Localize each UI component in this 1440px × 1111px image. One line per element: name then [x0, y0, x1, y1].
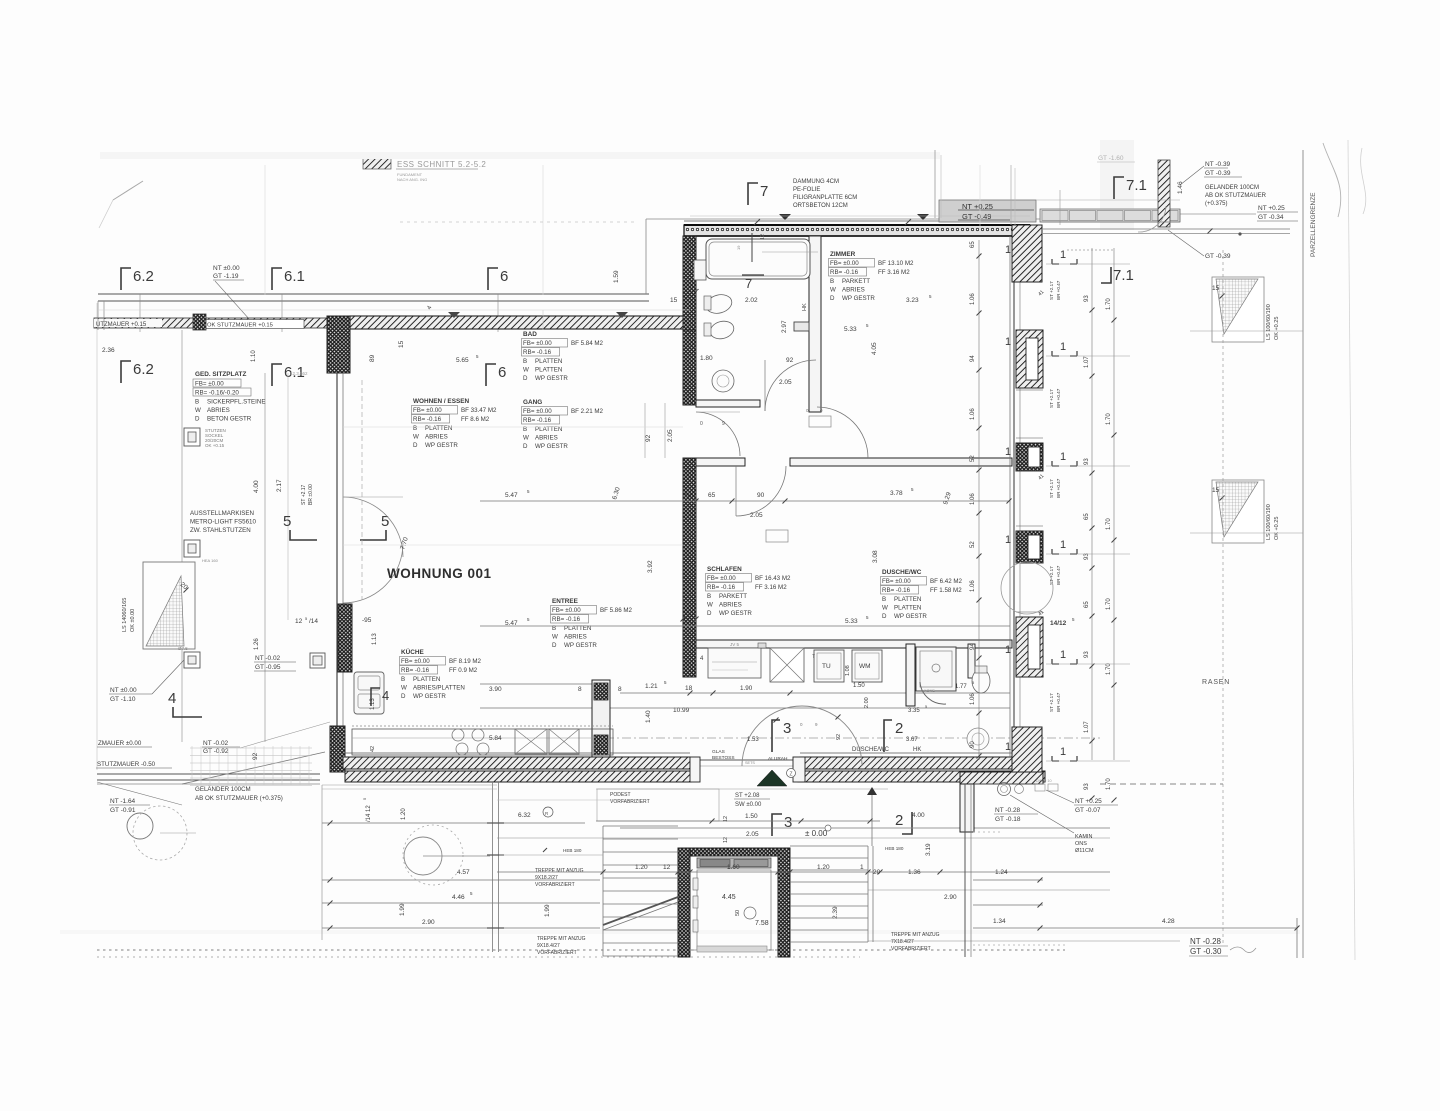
svg-text:ABRIES: ABRIES — [842, 287, 865, 294]
svg-text:/14: /14 — [309, 618, 318, 625]
stair marker triangle 1 — [1212, 277, 1264, 342]
svg-text:GT -0.07: GT -0.07 — [1075, 807, 1101, 814]
svg-text:5.65: 5.65 — [456, 357, 469, 364]
svg-text:GT -0.30: GT -0.30 — [1190, 947, 1222, 956]
svg-text:5.33: 5.33 — [844, 326, 857, 333]
svg-text:FB= ±0.00: FB= ±0.00 — [707, 575, 736, 582]
west wall stub kitchen — [338, 604, 352, 672]
svg-text:W: W — [195, 407, 201, 414]
svg-text:FB= ±0.00: FB= ±0.00 — [552, 607, 581, 614]
svg-text:NT -0.28: NT -0.28 — [995, 807, 1021, 814]
svg-text:15: 15 — [1212, 285, 1220, 292]
svg-text:94: 94 — [970, 643, 976, 650]
balcony slab gray NT+0.25 — [939, 200, 1036, 222]
svg-text:3.23: 3.23 — [906, 297, 919, 304]
small box near entree wall — [310, 653, 325, 668]
svg-text:BF 6.42 M2: BF 6.42 M2 — [930, 578, 963, 585]
left vertical line x182 — [181, 330, 183, 742]
svg-text:1.07: 1.07 — [1084, 721, 1090, 733]
svg-text:ORTSBETON 12CM: ORTSBETON 12CM — [793, 203, 848, 209]
svg-text:ONS: ONS — [1075, 841, 1087, 847]
svg-text:ABRIES: ABRIES — [535, 435, 558, 442]
svg-text:Ø11CM: Ø11CM — [1075, 848, 1094, 854]
svg-text:FF 8.6 M2: FF 8.6 M2 — [461, 416, 490, 423]
svg-text:4.00: 4.00 — [912, 812, 925, 819]
balcony slab tiles — [1040, 209, 1180, 222]
svg-text:1.20: 1.20 — [401, 808, 407, 820]
svg-text:6.2: 6.2 — [133, 361, 154, 378]
svg-text:PARKETT: PARKETT — [719, 593, 747, 600]
svg-text:OK ±0.00: OK ±0.00 — [130, 609, 136, 632]
svg-text:WP GESTR: WP GESTR — [564, 642, 597, 649]
wc toilet right — [972, 669, 990, 693]
svg-text:1.06: 1.06 — [970, 493, 976, 505]
svg-text:PE-FOLIE: PE-FOLIE — [793, 187, 820, 193]
svg-text:2.05: 2.05 — [746, 831, 759, 838]
svg-text:1: 1 — [1060, 451, 1066, 463]
svg-text:UTZMAUER +0.15: UTZMAUER +0.15 — [96, 322, 147, 328]
svg-text:1: 1 — [1005, 244, 1011, 256]
svg-text:1: 1 — [1060, 539, 1066, 551]
svg-text:FB= ±0.00: FB= ±0.00 — [523, 408, 552, 415]
svg-text:PLATTEN: PLATTEN — [894, 605, 921, 612]
SW corner wall — [330, 726, 345, 772]
svg-text:PLATTEN: PLATTEN — [413, 676, 440, 683]
horizontal long lines at stair level — [499, 854, 603, 856]
svg-text:GT -0.92: GT -0.92 — [203, 748, 229, 755]
north wall east part: insulation dotted band y226-236 x684-1030 — [684, 225, 1030, 236]
faint diagonal top-left — [113, 181, 143, 200]
svg-text:BF 13.10 M2: BF 13.10 M2 — [878, 260, 914, 267]
faint left border line — [96, 303, 98, 770]
svg-text:3.90: 3.90 — [489, 686, 502, 693]
svg-text:12: 12 — [366, 805, 372, 812]
north wall west part: hatched band y316-329 x327-690 — [350, 316, 690, 329]
svg-text:LS 14060/165: LS 14060/165 — [122, 598, 128, 632]
svg-text:RB= -0.16: RB= -0.16 — [413, 416, 442, 423]
canopy outer thin line top — [646, 218, 1180, 220]
svg-text:(+0.375): (+0.375) — [1205, 201, 1228, 207]
svg-text:2: 2 — [895, 812, 903, 829]
svg-text:AB OK STUTZMAUER: AB OK STUTZMAUER — [1205, 193, 1267, 199]
svg-text:2.90: 2.90 — [422, 919, 435, 926]
svg-text:ABRIES/PLATTEN: ABRIES/PLATTEN — [413, 685, 465, 692]
circle manhole — [127, 813, 153, 839]
svg-text:FB= ±0.00: FB= ±0.00 — [882, 578, 911, 585]
svg-text:GT -0.95: GT -0.95 — [255, 664, 281, 671]
schlafen niche small box — [758, 643, 766, 648]
stair dim line y872 — [497, 871, 1110, 873]
svg-text:5: 5 — [381, 513, 389, 530]
svg-text:1.10: 1.10 — [251, 350, 257, 362]
svg-text:NT -0.39: NT -0.39 — [1205, 161, 1231, 168]
svg-text:3.08: 3.08 — [872, 550, 879, 563]
svg-text:1.70: 1.70 — [1106, 598, 1112, 610]
svg-text:NT -0.02: NT -0.02 — [203, 740, 229, 747]
svg-text:KÜCHE: KÜCHE — [401, 647, 424, 656]
wall WM/shower — [906, 644, 915, 706]
svg-text:1.46: 1.46 — [1177, 181, 1184, 194]
svg-text:ZW. STAHLSTUTZEN: ZW. STAHLSTUTZEN — [190, 527, 251, 534]
svg-text:1.59: 1.59 — [613, 270, 620, 283]
svg-text:15: 15 — [670, 297, 678, 304]
svg-text:92: 92 — [645, 434, 652, 442]
svg-text:52: 52 — [970, 455, 976, 462]
svg-text:6: 6 — [498, 364, 506, 381]
bath south wall y400-407 — [696, 400, 760, 407]
entree/schlafen wall x683-696 y458-677 — [683, 458, 696, 677]
svg-text:6: 6 — [500, 268, 508, 285]
dim lines around entrance — [596, 820, 880, 822]
svg-text:1.06: 1.06 — [970, 408, 976, 420]
svg-text:65: 65 — [1084, 601, 1090, 608]
svg-text:BR +0.47: BR +0.47 — [1056, 565, 1061, 585]
svg-text:NT -1.64: NT -1.64 — [110, 798, 136, 805]
svg-text:2.05: 2.05 — [750, 512, 763, 519]
svg-text:PLATTEN: PLATTEN — [535, 367, 562, 374]
svg-text:WP GESTR: WP GESTR — [425, 442, 458, 449]
svg-text:FB= ±0.00: FB= ±0.00 — [401, 658, 430, 665]
svg-text:2.00: 2.00 — [864, 697, 870, 708]
chain x1092 93/65 — [1091, 248, 1093, 760]
stair core left wall — [678, 848, 690, 957]
svg-text:STUTZMAUER -0.50: STUTZMAUER -0.50 — [97, 761, 156, 768]
svg-text:93: 93 — [1084, 295, 1090, 302]
svg-text:FB= ±0.00: FB= ±0.00 — [523, 340, 552, 347]
svg-text:GELÄNDER 100CM: GELÄNDER 100CM — [195, 786, 251, 793]
svg-text:W: W — [552, 634, 558, 641]
svg-text:OK +0.15: OK +0.15 — [205, 443, 225, 448]
svg-text:RASEN: RASEN — [1202, 679, 1230, 686]
stair marker triangle 2 — [1212, 480, 1264, 543]
dim line y626 — [480, 625, 1010, 627]
mid stutzen box — [184, 540, 200, 557]
svg-text:FB= ±0.00: FB= ±0.00 — [830, 260, 859, 267]
grid small area below sitzplatz — [190, 747, 312, 749]
bath west wall (vert hatched) x683-696 y236-330 — [683, 236, 696, 330]
long faint horizontals upper area — [98, 309, 690, 311]
svg-text:FF 1.58 M2: FF 1.58 M2 — [930, 587, 962, 594]
svg-text:RB= -0.16: RB= -0.16 — [552, 616, 581, 623]
svg-text:3: 3 — [783, 720, 791, 737]
schlafen door arc — [736, 466, 786, 516]
svg-text:52: 52 — [970, 541, 976, 548]
svg-text:B: B — [413, 425, 417, 432]
svg-text:SW ±0.00: SW ±0.00 — [735, 802, 762, 808]
svg-text:9: 9 — [722, 421, 725, 427]
svg-text:1.60: 1.60 — [727, 864, 740, 871]
svg-text:12: 12 — [760, 234, 766, 240]
svg-text:PODEST: PODEST — [610, 792, 631, 798]
svg-text:93: 93 — [1084, 458, 1090, 465]
window sill small marks on facade — [1016, 389, 1043, 391]
svg-text:1.70: 1.70 — [1106, 298, 1112, 310]
svg-text:HK: HK — [913, 747, 921, 753]
svg-text:1.21: 1.21 — [645, 683, 658, 690]
svg-text:B: B — [401, 676, 405, 683]
svg-text:1: 1 — [1005, 741, 1011, 753]
east facade inner line — [1009, 236, 1011, 757]
small wall stamp near OK STUTZMAUER — [193, 314, 206, 330]
svg-text:Z: Z — [789, 772, 792, 778]
svg-text:ST +2.17: ST +2.17 — [1049, 389, 1054, 408]
dim line y501 — [480, 500, 1010, 502]
svg-text:3.19: 3.19 — [925, 843, 932, 856]
svg-text:GELANDER 100CM: GELANDER 100CM — [1205, 185, 1259, 191]
svg-text:1.99: 1.99 — [544, 904, 551, 917]
chain x1114 1.70 — [1113, 248, 1115, 760]
wash basin circle bottom — [967, 728, 989, 750]
squiggle — [1230, 947, 1256, 953]
svg-text:-95: -95 — [362, 617, 372, 624]
south wall inner line — [343, 752, 690, 754]
svg-text:5.84: 5.84 — [489, 735, 502, 742]
svg-text:7.1: 7.1 — [1126, 177, 1147, 194]
svg-text:BR +0.47: BR +0.47 — [1056, 692, 1061, 712]
left-of-facade chain x979 — [978, 240, 980, 760]
NW corner wall — [327, 316, 350, 373]
svg-text:7X18.4/27: 7X18.4/27 — [891, 939, 914, 945]
svg-text:KAMIN: KAMIN — [1075, 834, 1092, 840]
svg-text:1.77: 1.77 — [955, 684, 967, 690]
svg-text:DW Ø 10: DW Ø 10 — [1036, 779, 1052, 783]
svg-text:1.70: 1.70 — [1106, 663, 1112, 675]
svg-text:12.3.662: 12.3.662 — [290, 371, 308, 376]
svg-text:1: 1 — [1005, 446, 1011, 458]
svg-text:1.06: 1.06 — [970, 580, 976, 592]
facade pillar B1 — [1016, 330, 1043, 388]
svg-text:AUSSTELLMARKISEN: AUSSTELLMARKISEN — [190, 510, 254, 517]
svg-text:5.33: 5.33 — [845, 618, 858, 625]
left stair flight — [603, 825, 678, 827]
svg-text:7: 7 — [745, 276, 752, 291]
svg-text:SICKERPFL.STEINE: SICKERPFL.STEINE — [207, 399, 265, 406]
sink boxes — [515, 729, 547, 754]
svg-text:3: 3 — [784, 814, 792, 831]
stutzen sockel box — [184, 428, 200, 446]
svg-text:B: B — [195, 399, 199, 406]
svg-text:FF 0.9 M2: FF 0.9 M2 — [449, 667, 478, 674]
schlafen north wall y458-466 — [696, 458, 745, 466]
south wall west segment y757-782 — [343, 757, 690, 769]
svg-text:2.05: 2.05 — [779, 379, 792, 386]
svg-text:2.39: 2.39 — [832, 906, 839, 919]
facade pillar B4 — [1016, 617, 1043, 677]
light scan streaks — [100, 152, 940, 159]
svg-text:GT -0.91: GT -0.91 — [110, 807, 136, 814]
svg-text:ST +2.17: ST +2.17 — [1049, 693, 1054, 712]
svg-text:FF 3.16 M2: FF 3.16 M2 — [878, 269, 910, 276]
svg-text:93: 93 — [1084, 651, 1090, 658]
svg-text:W: W — [830, 287, 836, 294]
svg-text:WOHNUNG 001: WOHNUNG 001 — [387, 566, 492, 581]
svg-text:D: D — [552, 642, 557, 649]
svg-text:RB= -0.16: RB= -0.16 — [523, 417, 552, 424]
svg-text:1.50: 1.50 — [745, 813, 758, 820]
svg-text:ST +2.17: ST +2.17 — [1049, 281, 1054, 300]
svg-text:1.20: 1.20 — [817, 864, 830, 871]
west glass facade double line — [336, 373, 338, 757]
svg-text:PLATTEN: PLATTEN — [425, 425, 452, 432]
title stamp — [363, 158, 391, 169]
svg-text:15: 15 — [398, 340, 405, 348]
svg-text:3.78: 3.78 — [890, 490, 903, 497]
svg-text:ZMAUER ±0.00: ZMAUER ±0.00 — [98, 740, 142, 747]
svg-text:ST +2.17: ST +2.17 — [301, 484, 307, 505]
svg-text:ENTREE: ENTREE — [552, 598, 579, 605]
slanted dim lines left of stair — [322, 822, 585, 824]
svg-text:4.45: 4.45 — [722, 894, 736, 901]
svg-text:W: W — [413, 434, 419, 441]
svg-text:OK +0.25: OK +0.25 — [1274, 317, 1280, 340]
svg-text:1: 1 — [1060, 746, 1066, 758]
svg-text:2.97: 2.97 — [781, 320, 788, 333]
svg-text:FF 3.16 M2: FF 3.16 M2 — [755, 584, 787, 591]
svg-text:ABRIES: ABRIES — [425, 434, 448, 441]
entrance door swing — [742, 706, 862, 766]
svg-text:BF 8.19 M2: BF 8.19 M2 — [449, 658, 482, 665]
zimmer door arc (from gang) — [817, 407, 868, 458]
svg-text:± 0.00: ± 0.00 — [805, 829, 828, 838]
kitchen stub wall — [592, 680, 610, 757]
svg-text:BAD: BAD — [523, 331, 537, 338]
svg-text:FB= ±0.00: FB= ±0.00 — [413, 407, 442, 414]
svg-text:D: D — [882, 613, 887, 620]
svg-text:3.92: 3.92 — [647, 560, 654, 573]
mid horizontal faint y427 — [343, 426, 683, 428]
shower — [916, 647, 956, 691]
svg-text:ABRIES: ABRIES — [719, 602, 742, 609]
svg-text:3.35: 3.35 — [908, 708, 920, 714]
svg-text:VORFABRIZIERT: VORFABRIZIERT — [535, 882, 575, 888]
svg-text:ZIMMER: ZIMMER — [830, 251, 856, 258]
svg-text:ALURAH.: ALURAH. — [768, 756, 789, 762]
svg-text:ABRIES: ABRIES — [207, 407, 230, 414]
svg-text:WP GESTR: WP GESTR — [535, 375, 568, 382]
svg-text:1.90: 1.90 — [740, 685, 753, 692]
svg-text:1: 1 — [1005, 534, 1011, 546]
svg-text:1.34: 1.34 — [993, 918, 1006, 925]
svg-text:METRO-LIGHT FS5610: METRO-LIGHT FS5610 — [190, 519, 256, 526]
balcony right wall stub — [1158, 160, 1170, 227]
svg-text:12: 12 — [295, 618, 303, 625]
bath door arc — [765, 360, 816, 411]
svg-text:RB= -0.16: RB= -0.16 — [401, 667, 430, 674]
svg-text:92: 92 — [836, 734, 842, 740]
svg-text:2.17: 2.17 — [276, 479, 283, 492]
elevator door marks — [693, 878, 698, 890]
circle detail on facade — [1001, 562, 1053, 614]
dash-dot line above south wall — [605, 737, 1100, 739]
SE corner wall — [1012, 727, 1042, 772]
svg-text:HEA 160: HEA 160 — [202, 558, 219, 563]
facade pillar B3 — [1016, 531, 1043, 563]
svg-text:65: 65 — [708, 492, 716, 499]
svg-text:DAMMUNG 4CM: DAMMUNG 4CM — [793, 179, 839, 185]
svg-text:8: 8 — [618, 686, 622, 693]
toilet bad — [704, 292, 734, 316]
svg-text:D: D — [830, 295, 835, 302]
svg-text:RB= -0.16: RB= -0.16 — [882, 587, 911, 594]
svg-text:D: D — [707, 610, 712, 617]
small dashed at 945 — [973, 944, 1067, 946]
svg-text:65: 65 — [970, 241, 976, 248]
svg-text:1.70: 1.70 — [1106, 413, 1112, 425]
schlafen south wall y640-648 — [696, 640, 1012, 648]
svg-text:1.06: 1.06 — [970, 693, 976, 705]
svg-text:1.24: 1.24 — [995, 869, 1008, 876]
svg-text:PLATTEN: PLATTEN — [894, 596, 921, 603]
svg-text:LS 100/60/190: LS 100/60/190 — [1266, 304, 1272, 340]
svg-text:TU: TU — [822, 663, 831, 670]
faint right edge line — [1348, 140, 1355, 960]
right flight vertical dim — [872, 846, 874, 942]
svg-text:1.36: 1.36 — [908, 869, 921, 876]
svg-text:B: B — [707, 593, 711, 600]
svg-text:7.58: 7.58 — [755, 920, 769, 927]
balcony thin outline right — [1040, 221, 1180, 223]
svg-text:1: 1 — [1060, 649, 1066, 661]
svg-text:7: 7 — [760, 183, 768, 200]
svg-text:NT -0.28: NT -0.28 — [1190, 937, 1222, 946]
svg-text:1: 1 — [1005, 336, 1011, 348]
svg-text:TREPPE MIT ANZUG: TREPPE MIT ANZUG — [537, 936, 586, 942]
svg-text:4.05: 4.05 — [871, 342, 878, 355]
section 7 mark through bathtub — [751, 233, 753, 262]
svg-text:W: W — [401, 685, 407, 692]
svg-text:42: 42 — [370, 746, 376, 752]
svg-text:D: D — [523, 375, 528, 382]
svg-text:BR ±0.00: BR ±0.00 — [308, 484, 314, 505]
stove block left — [354, 672, 384, 714]
svg-text:NACH ANG. ING: NACH ANG. ING — [397, 177, 427, 182]
entrance triangle marker — [757, 770, 787, 786]
svg-text:WP GESTR: WP GESTR — [719, 610, 752, 617]
south wall east segment — [800, 757, 1040, 769]
svg-text:FB= ±0.00: FB= ±0.00 — [195, 381, 224, 388]
svg-text:1.20: 1.20 — [635, 864, 648, 871]
lower stutzen box — [184, 652, 200, 668]
elevator box — [697, 858, 771, 868]
svg-text:3.67: 3.67 — [906, 737, 918, 743]
svg-text:BR +0.47: BR +0.47 — [1056, 280, 1061, 300]
svg-text:HEB 180: HEB 180 — [885, 846, 904, 851]
svg-text:W: W — [707, 602, 713, 609]
wc partition small wall — [794, 322, 809, 331]
svg-text:NT ±0.00: NT ±0.00 — [110, 687, 137, 694]
svg-text:PARKETT: PARKETT — [842, 278, 870, 285]
east facade glass lines — [1013, 282, 1015, 727]
svg-text:WM: WM — [859, 663, 871, 670]
svg-text:1: 1 — [860, 864, 864, 871]
svg-text:T: T — [812, 654, 815, 660]
vertical dim lines below wall — [321, 785, 323, 940]
svg-text:1.40: 1.40 — [645, 710, 652, 723]
dotted line from 7.1 — [1067, 249, 1113, 251]
svg-text:W: W — [523, 435, 529, 442]
svg-text:1.80: 1.80 — [700, 355, 713, 362]
svg-text:FILIGRANPLATTE 6CM: FILIGRANPLATTE 6CM — [793, 195, 857, 201]
podest outline — [597, 789, 719, 821]
faint vertical guides left — [542, 310, 544, 330]
kamin circles — [998, 783, 1011, 796]
svg-text:D: D — [523, 443, 528, 450]
svg-text:SETS: SETS — [745, 761, 755, 765]
svg-text:DUSCHE/WC: DUSCHE/WC — [852, 747, 890, 753]
svg-text:HK: HK — [802, 303, 808, 311]
retaining wall double lines bottom — [97, 773, 320, 775]
svg-text:1.08: 1.08 — [845, 665, 851, 676]
